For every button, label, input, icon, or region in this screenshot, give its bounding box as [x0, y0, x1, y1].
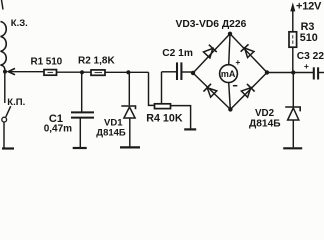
svg-text:0,47m: 0,47m: [44, 124, 72, 135]
svg-text:C2 1m: C2 1m: [162, 48, 193, 59]
svg-text:К.З.: К.З.: [11, 18, 28, 29]
svg-text:R4 10K: R4 10K: [146, 112, 183, 124]
svg-text:+12V: +12V: [296, 0, 322, 12]
svg-text:C3 22м: C3 22м: [297, 51, 324, 62]
svg-text:+: +: [304, 61, 309, 71]
svg-text:R1 510: R1 510: [31, 56, 63, 67]
svg-text:VD3-VD6 Д226: VD3-VD6 Д226: [176, 19, 247, 30]
svg-text:R2 1,8K: R2 1,8K: [78, 56, 115, 67]
svg-text:Д814Б: Д814Б: [96, 127, 126, 138]
svg-text:+: +: [235, 57, 240, 67]
svg-text:К.П.: К.П.: [7, 97, 25, 108]
svg-text:510: 510: [300, 32, 318, 44]
svg-text:Д814Б: Д814Б: [249, 119, 281, 130]
svg-text:VD2: VD2: [255, 108, 275, 119]
svg-text:mA: mA: [221, 69, 236, 79]
